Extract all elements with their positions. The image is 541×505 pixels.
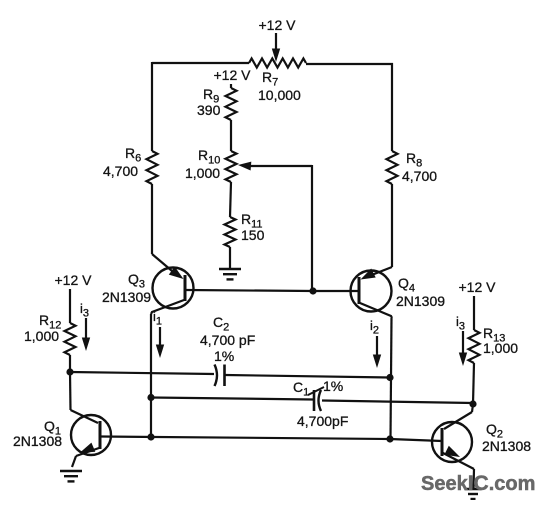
label 2N1309 of Q3 — [102, 289, 151, 305]
transistor Q2 circle — [432, 422, 472, 462]
label 1,000 value of R12 — [24, 328, 59, 344]
label R6 — [125, 145, 141, 165]
label slash before 1% — [308, 387, 324, 395]
label 2N1308 of Q2 — [482, 438, 531, 454]
svg-text:+12 V: +12 V — [259, 17, 297, 33]
ground (below Q2) — [465, 489, 482, 499]
label 4,700pF value of C1 — [297, 413, 348, 429]
current arrow i1 — [153, 309, 164, 358]
+12 V supply label (right) — [459, 279, 497, 295]
wire R9 to R10 — [230, 120, 232, 151]
svg-text:2N1308: 2N1308 — [482, 438, 531, 454]
Q1 emitter with NPN arrow — [76, 443, 99, 456]
wire node-left to C2 — [70, 372, 214, 374]
wire Q4 collector down — [391, 318, 392, 439]
Q4 emitter with PNP arrow — [361, 267, 393, 280]
svg-text:2N1308: 2N1308 — [13, 433, 62, 449]
wire R13 to node — [473, 363, 474, 404]
wire R10 to R11 — [230, 182, 231, 217]
label 1,000 value of R13 — [483, 340, 518, 356]
Q2 emitter with NPN arrow — [443, 446, 474, 469]
wire Q3 base to junction — [186, 290, 313, 291]
wire +12V to R13 — [473, 296, 475, 330]
wire wiper down to bases node — [311, 165, 313, 290]
Q3 emitter with PNP arrow — [152, 254, 184, 279]
svg-text:+12 V: +12 V — [214, 67, 252, 83]
current arrow i2 — [370, 318, 381, 368]
label 1% tolerance of C1 — [323, 378, 343, 394]
wire left rail lower (to Q3 emitter) — [151, 184, 153, 254]
wire right rail lower (to Q4 emitter) — [391, 184, 393, 267]
svg-text:10,000: 10,000 — [258, 87, 301, 103]
current arrow i3 (right) — [456, 314, 467, 366]
wire +12V to R9 — [230, 84, 232, 88]
wire R12 to node — [69, 355, 71, 372]
transistor Q4 circle — [351, 271, 392, 312]
label 4,700 value of R8 — [402, 168, 437, 184]
resistor R7 10,000 (potentiometer body) — [249, 59, 306, 68]
label R9 — [203, 86, 219, 106]
wire left rail upper — [151, 62, 153, 151]
node wire2 meets Q3 collector line — [147, 394, 154, 401]
label R8 — [406, 150, 422, 170]
label 4,700 value of R6 — [103, 163, 138, 179]
wire Q1 base to Q2 base — [101, 437, 442, 442]
svg-text:1,000: 1,000 — [24, 328, 59, 344]
+12 V supply label (left) — [55, 272, 93, 288]
svg-text:2N1309: 2N1309 — [396, 293, 445, 309]
node wire3 meets Q3 collector line — [147, 433, 154, 440]
capacitor C1 4,700pF — [314, 390, 321, 411]
svg-text:+12 V: +12 V — [459, 279, 497, 295]
label 1% tolerance of C2 — [214, 348, 234, 364]
node wire3 meets Q4 collector line — [386, 435, 393, 442]
Q2 collector diagonal — [444, 412, 472, 429]
label 390 value of R9 — [197, 102, 221, 118]
Q2 emitter lead down — [472, 469, 475, 489]
transistor Q1 circle — [71, 415, 111, 455]
Q4 collector — [360, 303, 392, 318]
node right (R13 / C1 wire / Q2 collector) — [469, 400, 476, 407]
svg-text:390: 390 — [197, 102, 221, 118]
wire Q3-collector node to C1 — [151, 398, 313, 400]
wire Q3 collector down — [150, 314, 152, 437]
label R11 — [241, 211, 263, 231]
resistor R6 4,700 — [147, 151, 158, 184]
svg-text:1%: 1% — [323, 378, 343, 394]
resistor R10 1,000 (potentiometer) — [226, 151, 237, 182]
wire Q1 collector up to node — [69, 372, 72, 410]
+12 V supply label (top) — [259, 17, 297, 33]
label Q4 — [398, 275, 415, 295]
svg-text:1,000: 1,000 — [185, 165, 220, 181]
svg-text:+12 V: +12 V — [55, 272, 93, 288]
ground (below Q1) — [60, 471, 82, 481]
resistor R13 1,000 — [469, 330, 480, 363]
svg-text:2N1309: 2N1309 — [102, 289, 151, 305]
wire Q2 collector up to node — [472, 404, 473, 412]
label C1 — [293, 379, 309, 399]
current arrow i3 (left) — [80, 301, 90, 351]
wire top-right horizontal — [306, 63, 393, 65]
label 1,000 value of R10 — [185, 165, 220, 181]
svg-text:4,700: 4,700 — [103, 163, 138, 179]
ground (below R11) — [219, 269, 241, 279]
label R10 — [198, 147, 220, 167]
Q3 base bar — [184, 275, 187, 301]
capacitor C2 4,700 pF — [215, 365, 225, 387]
svg-text:1,000: 1,000 — [483, 340, 518, 356]
label R12 — [39, 312, 61, 332]
Q3 collector — [151, 300, 184, 314]
Q4 base bar — [358, 277, 361, 304]
Q2 base bar — [441, 428, 444, 456]
label 150 value of R11 — [241, 227, 265, 243]
wire junction to Q4 base — [313, 290, 358, 292]
R10 wiper arrow — [238, 162, 312, 171]
node left (R12 / C2 wire / Q1 collector) — [66, 368, 73, 375]
wire R11 to ground — [229, 247, 231, 268]
wire C2 to Q4-collector node — [226, 375, 391, 378]
wire arrow from +12V to R7 wiper — [272, 33, 280, 62]
node junction of bases and wiper line — [309, 287, 316, 294]
svg-text:4,700pF: 4,700pF — [297, 413, 348, 429]
svg-text:SeekIC.com: SeekIC.com — [421, 472, 535, 495]
node wire1 meets Q4 collector line — [386, 374, 393, 381]
resistor R8 4,700 — [387, 151, 398, 184]
resistor R12 1,000 — [65, 323, 76, 355]
svg-text:1%: 1% — [214, 348, 234, 364]
Q1 emitter lead down — [72, 456, 76, 467]
label 4,700 pF value of C2 — [200, 332, 255, 348]
label 10,000 value of R7 — [258, 87, 301, 103]
label Q1 — [44, 418, 61, 438]
transistor Q3 circle — [153, 268, 194, 309]
resistor R11 150 — [225, 217, 236, 247]
wire +12V to R12 — [69, 289, 71, 323]
Q1 base bar — [99, 421, 102, 449]
wire C1 to node-right — [322, 401, 473, 404]
resistor R9 390 — [226, 88, 237, 120]
label R7 — [262, 69, 278, 89]
label R13 — [483, 325, 505, 345]
wire right rail upper — [391, 63, 393, 151]
label C2 — [213, 314, 229, 334]
label Q3 — [128, 271, 145, 291]
Q1 collector diagonal — [71, 410, 99, 423]
label Q2 — [486, 421, 503, 441]
label 2N1308 of Q1 — [13, 433, 62, 449]
svg-text:150: 150 — [241, 227, 265, 243]
svg-text:4,700: 4,700 — [402, 168, 437, 184]
+12 V supply label (above R9) — [214, 67, 252, 83]
watermark SeekIC.com — [421, 472, 535, 495]
label 2N1309 of Q4 — [396, 293, 445, 309]
svg-text:4,700 pF: 4,700 pF — [200, 332, 255, 348]
wire top-left horizontal — [152, 62, 249, 64]
